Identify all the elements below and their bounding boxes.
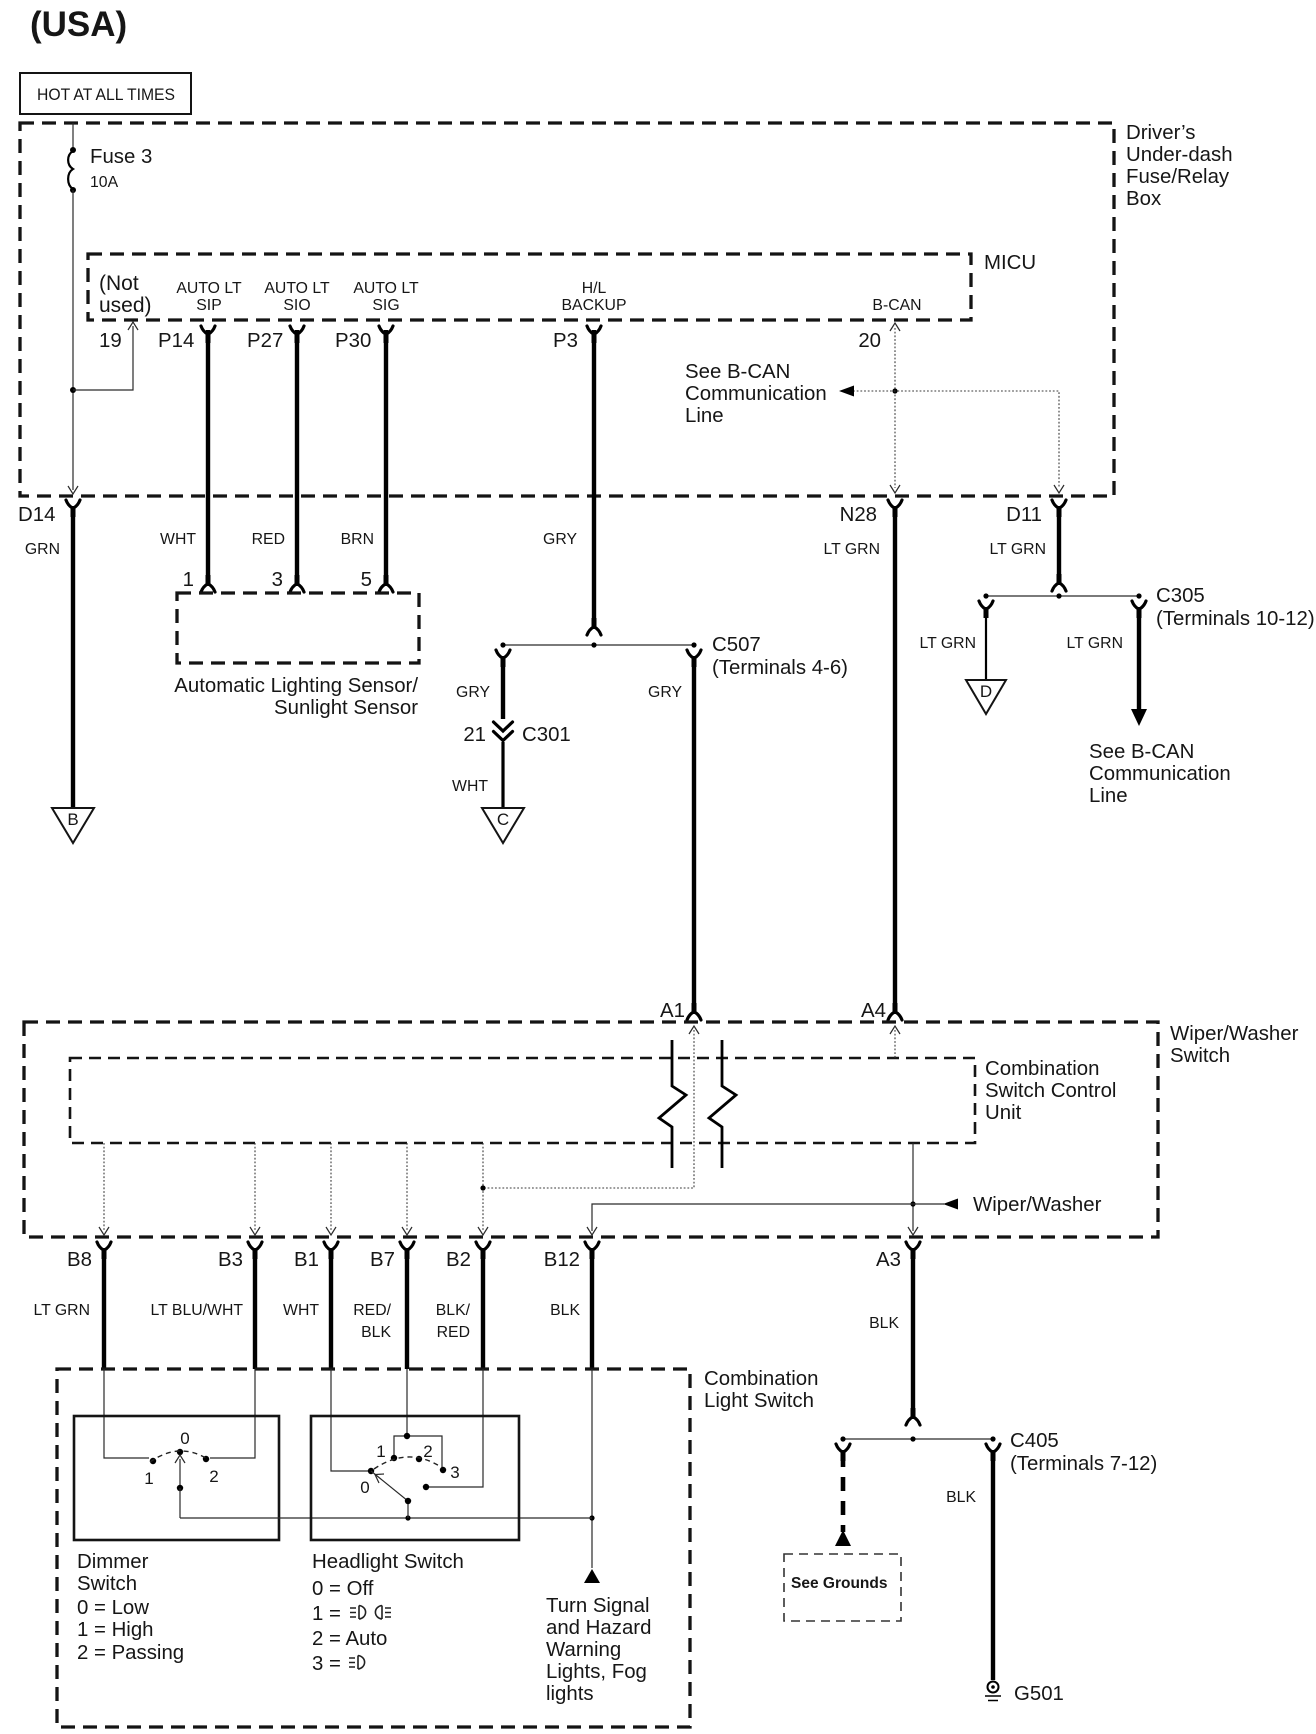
svg-text:SIG: SIG [372,297,399,314]
svg-text:(USA): (USA) [30,5,127,44]
svg-text:used): used) [99,294,152,317]
connector end of D11 wire [1052,583,1066,591]
svg-text:RED: RED [437,1324,470,1341]
svg-text:(Not: (Not [99,272,139,295]
svg-text:LT GRN: LT GRN [920,635,976,652]
wire BLK A3 down [911,1250,915,1416]
connector B12 [585,1242,599,1250]
wire GRY C507 to A1 [692,659,696,1004]
wire B1 internal [331,1369,368,1471]
svg-text:GRY: GRY [648,684,682,701]
dimmer pole arrow [179,1459,181,1488]
svg-text:B2: B2 [446,1249,471,1271]
break symbol right [709,1040,736,1168]
svg-text:RED/: RED/ [353,1302,391,1319]
wire B7 to light switch [405,1250,409,1369]
connector C507 branch [687,650,701,658]
svg-text:H/L: H/L [582,280,607,297]
svg-text:LT GRN: LT GRN [1067,635,1123,652]
Combination Switch Control Unit box [70,1058,975,1143]
svg-text:D14: D14 [18,504,55,526]
svg-text:Combination: Combination [985,1058,1099,1080]
svg-text:BLK/: BLK/ [436,1302,471,1319]
svg-text:BLK: BLK [361,1324,391,1341]
wire fuse feed [72,123,74,148]
connector B8 [97,1242,111,1250]
wire switch common line [180,1517,592,1519]
svg-text:GRY: GRY [456,684,490,701]
svg-text:B: B [67,810,78,829]
arrow at D14 exit [68,486,78,494]
connector at sensor pin 3 [290,584,304,592]
svg-text:AUTO LT: AUTO LT [176,280,242,297]
wire B8 to light switch [102,1250,106,1369]
wire WHT from P14 to sensor pin 1 [206,330,210,583]
svg-text:P3: P3 [553,330,578,352]
connector branch to D [979,601,993,609]
node junction line C305 terminals 10-12 [986,595,1139,597]
svg-text:Switch: Switch [77,1573,137,1595]
svg-text:Turn Signal: Turn Signal [546,1595,650,1617]
wire dimmer pole down [179,1488,181,1518]
svg-text:See Grounds: See Grounds [791,1575,887,1592]
connector pin P27 [290,326,304,334]
svg-text:B12: B12 [544,1249,580,1271]
Driver's Under-dash Fuse/Relay Box [20,123,1114,496]
svg-text:SIO: SIO [283,297,310,314]
connector at sensor pin 5 [379,584,393,592]
svg-text:lights: lights [546,1683,594,1705]
connector pin P14 [201,326,215,334]
wire B3 internal [210,1369,255,1458]
svg-text:3: 3 [450,1463,459,1482]
wire LT GRN N28 to A4 [893,508,897,1004]
svg-text:1 = High: 1 = High [77,1619,154,1641]
Headlight Switch box [311,1416,519,1540]
connector at sensor pin 1 [201,584,215,592]
wire B2 internal [429,1369,483,1487]
svg-text:WHT: WHT [160,531,196,548]
wire BLK to G501 [991,1453,995,1680]
connector end of A3 wire [906,1417,920,1425]
MICU box [88,254,971,320]
headlight bracket B7 [394,1436,442,1468]
wire riser to B2 [482,1143,484,1231]
svg-text:5: 5 [361,569,372,591]
svg-text:C405: C405 [1010,1430,1059,1452]
svg-text:GRY: GRY [543,531,577,548]
svg-text:0 = Off: 0 = Off [312,1578,374,1600]
wire B3 to light switch [253,1250,257,1369]
svg-text:Wiper/Washer: Wiper/Washer [1170,1023,1299,1045]
svg-text:A3: A3 [876,1249,901,1271]
svg-text:P30: P30 [335,330,371,352]
svg-text:See B-CAN: See B-CAN [1089,741,1194,763]
svg-text:1: 1 [144,1469,153,1488]
off-page triangle B [52,808,94,843]
svg-text:and Hazard: and Hazard [546,1617,651,1639]
svg-text:Headlight Switch: Headlight Switch [312,1551,464,1573]
svg-text:B-CAN: B-CAN [872,297,921,314]
connector pin P30 [379,326,393,334]
svg-text:D11: D11 [1006,504,1042,526]
svg-text:(Terminals 4-6): (Terminals 4-6) [712,657,848,679]
svg-text:C301: C301 [522,724,571,746]
svg-text:B3: B3 [218,1249,243,1271]
wire riser to B8 [103,1143,105,1231]
svg-text:Lights, Fog: Lights, Fog [546,1661,647,1683]
svg-text:AUTO LT: AUTO LT [264,280,330,297]
arrow to Wiper/Washer [943,1199,958,1210]
svg-text:Switch Control: Switch Control [985,1080,1116,1102]
wire GRN D14 to B [71,508,75,807]
svg-text:0: 0 [180,1429,189,1448]
Wiper/Washer Switch box [24,1022,1158,1237]
off-page triangle C [482,808,524,843]
svg-text:LT BLU/WHT: LT BLU/WHT [151,1302,244,1319]
node junction line C405 terminals 7-12 [843,1438,993,1440]
connector B2 [476,1242,490,1250]
svg-text:HOT AT ALL TIMES: HOT AT ALL TIMES [37,86,175,104]
connector A1 [687,1012,701,1020]
wire LT GRN to B-CAN line [1137,610,1141,710]
connector D14 [66,500,80,508]
wire LT GRN to D [985,610,987,679]
svg-text:WHT: WHT [452,778,488,795]
wire LT GRN D11 [1057,508,1061,582]
wire B7 internal [406,1369,408,1436]
wire riser to A3 [912,1143,914,1231]
svg-text:LT GRN: LT GRN [824,541,880,558]
node junction line C507 terminals 4-6 [503,644,694,646]
svg-text:C: C [497,810,509,829]
Combination Light Switch box [57,1369,690,1727]
solid arrow to See Grounds [835,1530,851,1546]
svg-text:Box: Box [1126,188,1161,210]
wire branch to pin 19 [73,326,133,390]
svg-text:BLK: BLK [550,1302,580,1319]
icon parking lights [350,1606,391,1620]
dimmer wiper arc [150,1451,209,1462]
connector B7 [400,1242,414,1250]
svg-text:21: 21 [463,724,486,746]
connector B1 [324,1242,338,1250]
svg-text:0: 0 [360,1478,369,1497]
svg-text:Fuse/Relay: Fuse/Relay [1126,166,1230,188]
wire B12 internal [591,1369,593,1568]
svg-text:See B-CAN: See B-CAN [685,361,790,383]
solid arrow down [1131,709,1147,726]
wire riser to B7 [406,1143,408,1231]
Dimmer Switch box [74,1416,279,1540]
svg-text:LT GRN: LT GRN [990,541,1046,558]
svg-text:P27: P27 [247,330,283,352]
solid arrow B12 turn signal [584,1569,600,1583]
ground G501 [988,1682,999,1693]
wire B12 to light switch [590,1250,594,1369]
svg-text:Automatic Lighting Sensor/: Automatic Lighting Sensor/ [174,675,418,697]
svg-text:Sunlight Sensor: Sunlight Sensor [274,697,418,719]
wire WHT to C [501,742,504,807]
HOT AT ALL TIMES box [20,73,191,114]
Automatic Lighting Sensor box [177,593,419,663]
wire dashed to grounds [841,1453,846,1532]
svg-text:RED: RED [252,531,285,548]
svg-text:A1: A1 [660,1000,685,1022]
wire B8 internal [104,1369,149,1458]
svg-text:2: 2 [209,1467,218,1486]
svg-text:3 =: 3 = [312,1653,341,1675]
svg-text:Driver’s: Driver’s [1126,122,1196,144]
fuse Fuse 3 10A [68,151,73,189]
wire RED from P27 to sensor pin 3 [295,330,299,583]
svg-text:Fuse 3: Fuse 3 [90,146,152,168]
wire GRY to C301 [501,659,505,719]
wire A4 internal [894,1030,896,1058]
svg-text:Light Switch: Light Switch [704,1390,814,1412]
svg-text:Unit: Unit [985,1102,1022,1124]
svg-text:19: 19 [99,330,122,352]
connector A3 [906,1242,920,1250]
svg-text:BLK: BLK [946,1489,976,1506]
headlight wiper arc [374,1457,441,1469]
svg-text:1: 1 [376,1442,385,1461]
svg-text:Line: Line [1089,785,1128,807]
arrow into MICU pin 19 [128,322,138,330]
wire B2 to light switch [481,1250,485,1369]
connector N28 [888,500,902,508]
svg-text:SIP: SIP [196,297,221,314]
svg-text:Combination: Combination [704,1368,818,1390]
svg-text:20: 20 [858,330,881,352]
svg-text:(Terminals 7-12): (Terminals 7-12) [1010,1453,1157,1475]
connector branch to C301 [496,650,510,658]
svg-text:0 = Low: 0 = Low [77,1597,149,1619]
svg-text:10A: 10A [90,174,119,191]
svg-text:BACKUP: BACKUP [562,297,627,314]
connector B3 [248,1242,262,1250]
svg-text:Wiper/Washer: Wiper/Washer [973,1194,1102,1216]
svg-text:A4: A4 [861,1000,886,1022]
off-page triangle D [966,680,1006,714]
svg-text:P14: P14 [158,330,194,352]
connector A4 [888,1012,902,1020]
svg-text:2: 2 [423,1442,432,1461]
wire BRN from P30 to sensor pin 5 [384,330,388,583]
connector branch to grounds [836,1444,850,1452]
svg-text:B1: B1 [294,1249,319,1271]
svg-text:B8: B8 [67,1249,92,1271]
connector end of P3 wire [587,627,601,635]
wire B1 to light switch [329,1250,333,1369]
icon headlight [349,1656,365,1670]
wire riser to B3 [254,1143,256,1231]
svg-text:2 = Auto: 2 = Auto [312,1628,387,1650]
svg-text:G501: G501 [1014,1683,1064,1705]
headlight contact B2 [423,1484,429,1490]
svg-text:BLK: BLK [869,1315,899,1332]
svg-text:Dimmer: Dimmer [77,1551,149,1573]
arrow to See B-CAN text [839,386,854,397]
connector branch to G501 [986,1444,1000,1452]
svg-text:1: 1 [183,569,194,591]
svg-text:Warning: Warning [546,1639,621,1661]
svg-text:Communication: Communication [685,383,827,405]
svg-text:AUTO LT: AUTO LT [353,280,419,297]
svg-text:B7: B7 [370,1249,395,1271]
svg-text:N28: N28 [840,504,877,526]
break symbol left [659,1040,686,1168]
svg-text:2 = Passing: 2 = Passing [77,1642,184,1664]
wire See B-CAN link [853,391,1059,488]
svg-text:(Terminals 10-12): (Terminals 10-12) [1156,608,1315,630]
svg-text:BRN: BRN [341,531,374,548]
svg-text:1 =: 1 = [312,1603,341,1625]
wire riser to B1 [330,1143,332,1231]
svg-text:D: D [980,682,992,701]
svg-text:C507: C507 [712,634,761,656]
svg-text:WHT: WHT [283,1302,319,1319]
wire fuse to D14 [72,190,74,490]
wire GRY from P3 [592,330,596,626]
svg-text:Communication: Communication [1089,763,1231,785]
wire A1 internal [483,1030,694,1188]
connector branch to B-CAN line [1132,601,1146,609]
wire B-CAN net [894,328,896,488]
svg-text:MICU: MICU [984,252,1036,274]
wire Wiper/Washer link from B12 [592,1204,944,1231]
svg-text:C305: C305 [1156,585,1205,607]
svg-text:3: 3 [272,569,283,591]
headlight pole lever [371,1471,408,1518]
svg-text:Switch: Switch [1170,1045,1230,1067]
See Grounds box [784,1554,901,1621]
svg-text:Line: Line [685,405,724,427]
connector D11 [1052,500,1066,508]
connector pin P3 [587,326,601,334]
svg-text:GRN: GRN [25,541,60,558]
svg-text:Under-dash: Under-dash [1126,144,1233,166]
svg-text:LT GRN: LT GRN [34,1302,90,1319]
